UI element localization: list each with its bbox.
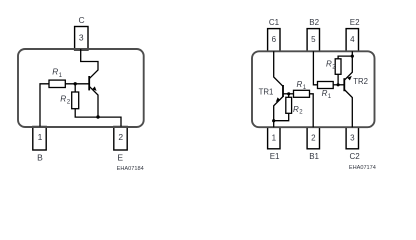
resistor R1 of TR1 bbox=[294, 90, 310, 97]
label R1 of TR2 bbox=[322, 89, 332, 100]
svg-text:R: R bbox=[322, 89, 328, 98]
svg-text:6: 6 bbox=[272, 35, 277, 44]
svg-text:1: 1 bbox=[38, 132, 43, 142]
pin 5 box (top middle, B2) bbox=[307, 29, 319, 52]
node: junction dot base/R2 of TR1 bbox=[287, 92, 290, 95]
wire R2 bottom to E1 rail bbox=[274, 113, 289, 120]
svg-text:EHA07184: EHA07184 bbox=[117, 166, 144, 172]
pin label C1 bbox=[269, 18, 280, 27]
svg-text:C2: C2 bbox=[349, 152, 360, 161]
svg-text:2: 2 bbox=[311, 134, 316, 143]
pin label C bbox=[79, 15, 85, 25]
wire R2 bottom to emitter rail and pin 2 bbox=[75, 109, 121, 127]
wire B: pin1 up to R1 bbox=[40, 84, 49, 127]
svg-text:3: 3 bbox=[79, 33, 84, 43]
wire R2 top to E2 line bbox=[338, 56, 352, 59]
svg-text:1: 1 bbox=[328, 94, 332, 100]
pin number 3 bbox=[79, 33, 84, 43]
svg-text:TR2: TR2 bbox=[353, 77, 368, 86]
wire R1 to TR2 base node bbox=[333, 84, 344, 86]
pin label B bbox=[37, 152, 43, 162]
svg-text:R: R bbox=[60, 93, 66, 103]
pin number 1 bbox=[38, 132, 43, 142]
pin number 2 bbox=[311, 134, 316, 143]
pin number 1 bbox=[272, 134, 277, 143]
svg-text:1: 1 bbox=[272, 134, 277, 143]
transistor TR base bar bbox=[88, 76, 90, 90]
wire node down to R2 bbox=[74, 84, 76, 92]
svg-text:R: R bbox=[297, 80, 303, 89]
resistor R1 of TR2 bbox=[318, 82, 334, 89]
svg-text:C: C bbox=[79, 15, 85, 25]
svg-text:5: 5 bbox=[311, 35, 316, 44]
node: junction dot E1 rail bbox=[272, 119, 275, 122]
wire C1: pin 6 down to TR1 collector bbox=[274, 51, 283, 86]
svg-text:E2: E2 bbox=[350, 18, 360, 27]
pin number 6 bbox=[272, 35, 277, 44]
node: junction dot R1/R2/base bbox=[74, 82, 77, 85]
TR1 base wire bbox=[283, 93, 294, 95]
label TR1 bbox=[259, 88, 274, 97]
label TR2 bbox=[353, 77, 368, 86]
node: junction dot emitter/rail bbox=[96, 115, 99, 118]
transistor collector wire to pin 3 bbox=[81, 49, 98, 79]
svg-text:R: R bbox=[52, 67, 58, 77]
pin 2 box (bottom right, E) bbox=[114, 127, 127, 151]
wire R1 to B1 pin 2 bbox=[310, 94, 314, 127]
svg-text:TR1: TR1 bbox=[259, 88, 274, 97]
pin 3 box (bottom right, C2) bbox=[346, 127, 358, 149]
transistor TR1 base bar bbox=[282, 85, 284, 97]
wire R1 to base bbox=[65, 83, 88, 85]
pin 1 box (bottom left, E1) bbox=[268, 127, 280, 149]
wire node up to R2 of TR2 bbox=[337, 74, 339, 85]
svg-text:4: 4 bbox=[350, 35, 355, 44]
pin label E bbox=[117, 152, 123, 162]
wire B2: pin 5 down to R1 of TR2 bbox=[313, 51, 317, 85]
svg-text:B: B bbox=[37, 152, 43, 162]
label R2 bbox=[60, 93, 70, 105]
pin number 5 bbox=[311, 35, 316, 44]
resistor R2 box bbox=[72, 92, 79, 109]
pin 6 box (top left, C1) bbox=[268, 29, 280, 52]
svg-text:B1: B1 bbox=[309, 152, 319, 161]
pin label C2 bbox=[349, 152, 360, 161]
svg-text:E: E bbox=[117, 152, 123, 162]
pin label B2 bbox=[309, 18, 319, 27]
svg-text:2: 2 bbox=[299, 110, 303, 116]
package outline bbox=[18, 49, 144, 127]
svg-text:C1: C1 bbox=[269, 18, 280, 27]
package outline bbox=[252, 51, 375, 127]
svg-text:R: R bbox=[326, 60, 332, 69]
label R1 of TR1 bbox=[297, 80, 307, 91]
TR1 emitter wire with arrow to pin 1 bbox=[274, 97, 283, 128]
pin number 4 bbox=[350, 35, 355, 44]
pin label E2 bbox=[350, 18, 360, 27]
pin number 2 bbox=[118, 132, 123, 142]
figure code EHA07184 bbox=[117, 166, 144, 172]
resistor R2 of TR2 bbox=[335, 59, 341, 75]
svg-text:R: R bbox=[293, 105, 299, 114]
node: junction dot E2 bbox=[351, 55, 354, 58]
pin 1 box (bottom left, B) bbox=[33, 127, 46, 151]
label R1 bbox=[52, 67, 62, 79]
svg-text:2: 2 bbox=[118, 132, 123, 142]
TR2 collector wire down to pin 3 (C2) bbox=[344, 90, 352, 128]
pin label B1 bbox=[309, 152, 319, 161]
TR2 emitter wire with arrow up to pin 4 (E2) bbox=[344, 51, 352, 80]
svg-text:1: 1 bbox=[59, 72, 63, 79]
svg-text:2: 2 bbox=[67, 99, 71, 106]
svg-text:E1: E1 bbox=[270, 152, 280, 161]
transistor TR2 base bar bbox=[343, 78, 345, 91]
pin 4 box (top right, E2) bbox=[346, 29, 358, 52]
resistor R2 of TR1 bbox=[286, 97, 292, 113]
pin label E1 bbox=[270, 152, 280, 161]
label R2 of TR1 bbox=[293, 105, 303, 116]
svg-text:3: 3 bbox=[350, 134, 355, 143]
pin number 3 bbox=[350, 134, 355, 143]
svg-text:EHA07174: EHA07174 bbox=[349, 165, 376, 171]
pin 3 box (top, C) bbox=[75, 27, 88, 51]
resistor R1 box bbox=[49, 80, 65, 87]
transistor emitter wire with arrow bbox=[89, 86, 98, 117]
svg-text:B2: B2 bbox=[309, 18, 319, 27]
wire node down to R2 of TR1 bbox=[288, 94, 290, 98]
figure code EHA07174 bbox=[349, 165, 376, 171]
label R2 of TR2 bbox=[326, 60, 336, 71]
pin 2 box (bottom middle, B1) bbox=[307, 127, 319, 149]
node: junction dot base/R2 of TR2 bbox=[337, 83, 340, 86]
